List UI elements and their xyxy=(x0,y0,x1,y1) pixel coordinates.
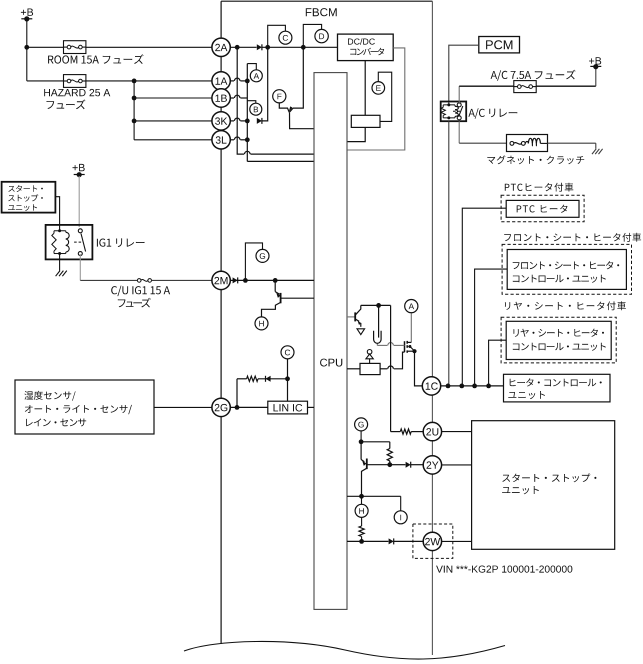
long feed down to 2U resistor (hopped by other rows) xyxy=(390,305,392,431)
pin 2M xyxy=(212,271,230,289)
IG1 relay switch output to C/U IG1 fuse and pin 2M xyxy=(79,254,81,280)
transistor Q4 (NPN from CPU) collector node xyxy=(361,304,391,306)
resistor + diode branch up to terminal C xyxy=(236,379,238,408)
hook to terminal B xyxy=(247,101,256,104)
pin 2M row inside FBCM xyxy=(230,279,314,281)
terminal circle H (Q2 collector) xyxy=(255,317,268,330)
terminal circle C (LIN IC node) xyxy=(281,346,294,359)
MOSFET source down to 1C xyxy=(415,351,423,386)
A/C relay coil down to 1C row xyxy=(448,121,450,386)
DC/DC right output to CPU xyxy=(347,48,405,150)
wire from start-stop unit to IG1 relay coil xyxy=(55,197,59,231)
terminal H (lower) with resistor to 2W row xyxy=(361,496,363,504)
C/U IG1 15A fuse (inline) xyxy=(137,279,141,283)
MOSFET Q3: gate bar / channel / drain / source xyxy=(404,341,406,352)
ROOM 15A fuse xyxy=(27,46,64,48)
pin 2W xyxy=(423,532,441,550)
pin 2U xyxy=(423,422,441,440)
pin 3L xyxy=(212,131,230,149)
terminal circle G (2M node) xyxy=(256,249,269,262)
diode D2 on 3K row xyxy=(257,118,262,124)
start-stop unit box (right) xyxy=(472,421,615,550)
internal ground arrow of Q4 emitter xyxy=(357,329,365,335)
hops where pin rows cross the 2A vertical xyxy=(230,80,234,82)
transistor Q1 driven from node D (F terminal base) xyxy=(279,103,289,113)
pin 1B xyxy=(212,89,230,107)
pin 1C row with junction dots xyxy=(441,385,504,387)
2W row from CPU with diode D6 xyxy=(347,540,388,542)
PCM box xyxy=(479,37,520,53)
gate feed line from driver capsule (with hop) xyxy=(376,343,378,345)
heater control unit box xyxy=(504,374,611,402)
resistor R3 row from CPU to MOSFET gate xyxy=(347,368,360,370)
DC/DC converter box xyxy=(338,34,394,61)
terminal circle A (MOSFET drain) xyxy=(405,300,418,313)
PTC heater (cars with PTC heater) xyxy=(505,183,574,192)
terminal A (output stage) and MOSFET xyxy=(410,313,412,343)
terminal circle A (1A/1B node waveform) xyxy=(250,70,262,82)
A/C relay xyxy=(441,102,467,122)
junction column feeding 1A/1B/3K/3L xyxy=(133,81,135,140)
rear seat heater unit (cars with rear seat heater) xyxy=(505,301,626,310)
terminal circle B (3K node waveform) xyxy=(250,103,262,115)
wire sensor box to pin 2G xyxy=(154,406,212,408)
battery +B (middle left) xyxy=(73,164,85,171)
pin 2G row: LIN IC xyxy=(230,406,267,408)
wire to PTC heater xyxy=(462,208,506,386)
wires 2U/2Y/2W to start-stop unit xyxy=(442,431,472,433)
zener with circle above R3 xyxy=(367,350,372,355)
CPU box xyxy=(314,73,347,610)
battery +B (right) xyxy=(589,57,601,64)
wire 2A row inside FBCM with diode xyxy=(230,46,256,48)
FBCM unit outline (torn bottom) xyxy=(221,0,432,2)
wire to front seat heater unit xyxy=(475,269,508,386)
resistor R1 (box style) xyxy=(351,115,380,127)
2U row: resistor to pin 2U xyxy=(400,429,411,434)
terminal circle D xyxy=(315,29,328,42)
row to terminals H and I xyxy=(347,495,401,497)
terminal circle E xyxy=(372,82,385,95)
wire +B down to ROOM fuse row and HAZARD row xyxy=(26,19,28,81)
front seat heater unit (cars with front seat heater) xyxy=(504,233,641,242)
wire PCM to A/C relay coil xyxy=(449,45,479,104)
pin 2G xyxy=(212,398,230,416)
magnet clutch to ground xyxy=(548,142,596,144)
hook to terminal D xyxy=(303,24,321,47)
node link 3K row up to 2A row xyxy=(262,47,268,121)
vertical from 2A junction down to CPU row (with hops at pin rows) xyxy=(237,47,244,154)
hook to terminal A xyxy=(247,64,256,70)
pin 2Y xyxy=(423,456,441,474)
2W applicability dashed outline xyxy=(413,524,453,558)
FBCM label xyxy=(306,8,337,16)
HAZARD 25A fuse xyxy=(27,80,64,82)
magnet clutch box (fuse + coil) xyxy=(507,135,548,152)
A/C relay switch to magnet clutch xyxy=(458,121,460,143)
terminal G (lower) hook and transistor Q5 xyxy=(355,418,368,431)
Q5 transistor (G emitter, diode to 2Y) xyxy=(360,442,362,460)
diode D1 on 2A row xyxy=(257,44,262,50)
pin 3K xyxy=(212,112,230,130)
torn-paper wavy bottom edge xyxy=(184,641,505,659)
pin 1C xyxy=(422,377,440,395)
diode D5 to pin 2Y xyxy=(390,464,406,466)
R1 bottom to CPU xyxy=(347,127,365,141)
driver capsule element xyxy=(374,331,382,344)
diode D3 after pin 2M xyxy=(233,277,238,283)
IG1 relay coil ground xyxy=(59,253,61,270)
terminal E bracket from R1 xyxy=(378,72,391,121)
hook to terminal G xyxy=(245,243,262,281)
wire to rear seat heater unit xyxy=(489,340,507,386)
hook to terminal C (top) xyxy=(268,25,286,47)
VIN note xyxy=(436,566,572,573)
DC/DC output down to resistor R1 xyxy=(364,61,366,116)
IG1 relay xyxy=(46,225,93,260)
diode D4 (pointing left) xyxy=(266,376,271,382)
pin 2A xyxy=(212,38,230,56)
terminal circle F xyxy=(273,90,286,103)
pin 1A xyxy=(212,72,230,90)
humidity / auto light / rain sensor box xyxy=(15,380,154,434)
common node column for 1A/1B/3K/3L pins xyxy=(246,64,248,162)
A/C 7.5A fuse row to +B xyxy=(458,86,460,104)
start-stop unit (left, for IG1 relay coil) xyxy=(2,182,56,213)
battery +B (top left) xyxy=(21,9,33,16)
terminal circle C (2A node waveform) xyxy=(279,31,292,44)
transistor Q2 (2M row, PNP) with H terminal xyxy=(274,280,276,291)
